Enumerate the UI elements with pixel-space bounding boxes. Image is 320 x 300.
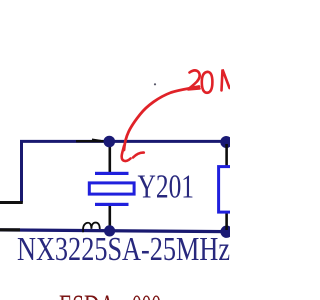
annotation: red arrow hook [122,146,144,161]
crystal Y201 top plate [95,172,129,175]
wire: bottom horizontal net [0,230,227,232]
crystal Y201 body [89,183,134,194]
wire: black overlay segment on top wire [76,140,106,142]
annotation: red arrow curve [124,87,199,151]
speck [154,83,156,85]
wire: bottom-left black portion [0,228,20,231]
wire: right branch top lead (black) [225,144,228,167]
node: bottom right junction dot [220,226,232,238]
svg-text:000: 000 [132,289,161,300]
component: right body rectangle (cut by edge) [219,167,245,213]
crystal Y201 bottom plate [95,203,129,206]
wire: top horizontal net from left corner to right branch [20,140,226,143]
wire: right branch bottom lead (black) [225,211,228,230]
scribble: small double-loop mark on bottom wire [83,223,100,233]
wire: left vertical drop [20,140,23,203]
svg-text:NX3225SA-25MHz: NX3225SA-25MHz [17,231,230,268]
annotation: red handwritten 20M [188,70,200,89]
svg-text:Y201: Y201 [138,168,195,205]
wire: left black stub to edge [0,201,23,204]
svg-text:ESDA: ESDA [59,289,115,300]
wire: crystal top lead (black) [109,143,112,173]
node: top right junction dot [220,136,232,148]
node: bottom junction dot [104,225,115,236]
wire: crystal bottom lead (black) [109,204,112,230]
wire: small tick on top wire [92,139,101,140]
node: top junction dot [104,136,116,148]
